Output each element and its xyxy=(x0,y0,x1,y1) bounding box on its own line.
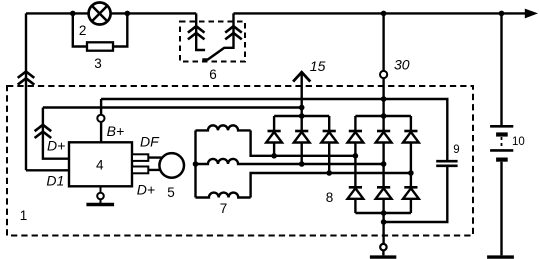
svg-text:15: 15 xyxy=(310,58,326,74)
arrowhead output xyxy=(525,9,538,19)
svg-text:3: 3 xyxy=(94,56,102,71)
connector switch right xyxy=(225,26,242,39)
diode bridge top 2 xyxy=(376,131,392,143)
svg-text:7: 7 xyxy=(220,201,228,216)
node phase A bridge xyxy=(353,153,359,159)
wire switch left contact xyxy=(196,13,205,50)
regulator pin D+ xyxy=(132,167,148,174)
wire top right segment xyxy=(234,12,527,14)
svg-text:30: 30 xyxy=(394,57,410,73)
node D+ bus to riser xyxy=(299,105,305,111)
svg-text:5: 5 xyxy=(167,185,175,200)
wire phase C xyxy=(251,173,411,198)
wire battery bottom xyxy=(500,162,502,256)
diode bridge top 3 xyxy=(403,131,419,143)
wire D+ branch vertical xyxy=(43,108,69,159)
ground regulator xyxy=(86,186,114,204)
wire trio diode 1 leg xyxy=(273,116,275,156)
svg-text:2: 2 xyxy=(79,23,87,38)
wire bridge leg 3 xyxy=(410,116,412,213)
wire battery top xyxy=(500,13,502,126)
wire bridge leg 2 xyxy=(382,116,384,213)
wire bridge bottom bus xyxy=(355,212,411,214)
node phase A trio tap xyxy=(271,153,277,159)
field winding rotor 5 xyxy=(159,153,184,178)
diode bridge top 1 xyxy=(348,131,364,143)
svg-text:D1: D1 xyxy=(46,173,64,189)
wire left vertical D1 feed xyxy=(25,13,27,170)
terminal 30 circle xyxy=(380,71,387,78)
svg-text:8: 8 xyxy=(326,190,334,205)
capacitor C9 xyxy=(436,161,457,166)
ground battery xyxy=(487,255,514,258)
wire pin DF to brush xyxy=(148,156,165,158)
wire main bus B+ xyxy=(101,99,447,161)
dashed box generator 1 xyxy=(7,86,473,236)
regulator pin DF xyxy=(132,154,148,161)
svg-text:6: 6 xyxy=(209,67,217,82)
wire bridge leg 1 xyxy=(354,116,356,213)
wire phase A xyxy=(251,130,356,155)
svg-text:1: 1 xyxy=(20,208,28,223)
resistor R3 xyxy=(87,42,113,50)
diode bridge bottom 1 xyxy=(348,187,364,199)
wire switch right contact xyxy=(224,13,234,47)
node phase B trio tap xyxy=(299,161,305,167)
wire pin D+ to brush xyxy=(148,169,165,171)
wire terminal 15 riser xyxy=(301,74,303,116)
wire resistor branch left xyxy=(73,13,87,46)
node battery top xyxy=(499,11,505,17)
wire terminal 30 riser xyxy=(382,13,384,116)
terminal B+ circle xyxy=(97,115,104,122)
switch blade xyxy=(202,48,224,60)
node star point xyxy=(193,161,199,167)
ground generator xyxy=(370,244,396,257)
connector switch left xyxy=(188,26,205,39)
stator winding W3 xyxy=(196,193,251,198)
wire trio bus xyxy=(274,115,329,117)
diode bridge bottom 2 xyxy=(376,187,392,199)
svg-text:D+: D+ xyxy=(137,181,155,197)
wire B+ riser xyxy=(100,99,102,142)
diode trio D1b xyxy=(294,131,310,143)
regulator U4 xyxy=(69,142,132,186)
connector D+ xyxy=(35,125,52,138)
svg-text:B+: B+ xyxy=(107,123,125,139)
wire capacitor bottom xyxy=(384,166,448,222)
svg-text:4: 4 xyxy=(96,157,104,172)
wire trio diode 3 leg xyxy=(328,116,330,173)
node bridge bottom xyxy=(381,210,387,216)
node bus 30 xyxy=(381,96,387,102)
stator winding W1 xyxy=(196,125,251,130)
connector on left wire xyxy=(18,72,35,85)
node phase C trio tap xyxy=(326,170,332,176)
node capacitor bottom tap xyxy=(381,219,387,225)
svg-text:9: 9 xyxy=(453,144,459,156)
wire bridge top bus xyxy=(355,115,411,117)
battery GB10 xyxy=(490,126,513,159)
node lamp right xyxy=(125,11,131,17)
node terminal 30 top xyxy=(381,11,387,17)
node bridge riser xyxy=(381,113,387,119)
diode trio D1c xyxy=(321,131,337,143)
dashed box ignition switch 6 xyxy=(180,22,245,62)
stator star vertical xyxy=(194,130,196,197)
stator winding W2 xyxy=(196,159,384,164)
lamp 2 xyxy=(89,3,111,25)
node phase B bridge xyxy=(381,161,387,167)
wire D+ bus xyxy=(43,106,302,108)
wire resistor branch right xyxy=(113,13,127,46)
wire trio diode 2 leg xyxy=(301,116,303,164)
svg-text:DF: DF xyxy=(140,133,160,149)
wire D1 horizontal xyxy=(26,169,69,171)
diode trio D1a xyxy=(266,131,282,143)
node lamp left xyxy=(70,11,76,17)
terminal 15 arrow xyxy=(293,72,310,81)
node phase C bridge xyxy=(408,170,414,176)
diode bridge bottom 3 xyxy=(403,187,419,199)
node trio riser xyxy=(299,113,305,119)
svg-text:10: 10 xyxy=(512,136,525,148)
wire bridge to ground xyxy=(382,213,384,244)
svg-text:D+: D+ xyxy=(47,137,65,153)
wire top left segment xyxy=(26,12,196,14)
